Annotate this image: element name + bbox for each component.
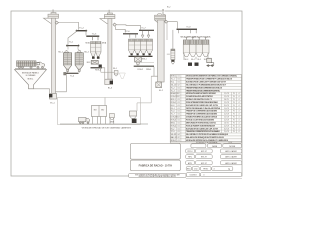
svg-text:TC-7: TC-7 [171, 114, 175, 116]
svg-text:4: 4 [239, 117, 240, 119]
svg-text:TC-6: TC-6 [125, 31, 129, 33]
frame border [11, 11, 242, 176]
svg-text:01: 01 [178, 99, 180, 101]
apr row [186, 161, 195, 165]
svg-text:4: 4 [239, 114, 240, 116]
svg-text:01: 01 [178, 82, 180, 84]
svg-text:4: 4 [239, 102, 240, 104]
svg-text:TC-3: TC-3 [171, 90, 175, 92]
silo SIL-2 [75, 50, 89, 71]
svg-text:MISTURADOR HORIZONTAL 1000 KG: MISTURADOR HORIZONTAL 1000 KG [186, 121, 216, 124]
elevator EL-3 boot [105, 79, 113, 89]
bagging stations [188, 63, 199, 66]
hopper MOE-1 (moega de recebimento) [15, 70, 47, 89]
svg-text:TRANSP. DE CORRENTE DA DOSAGEM: TRANSP. DE CORRENTE DA DOSAGEM [186, 113, 217, 116]
svg-text:FIL-1: FIL-1 [113, 68, 117, 70]
esc row [186, 167, 191, 171]
title block [129, 144, 242, 179]
svg-text:ROS-1: ROS-1 [95, 70, 101, 72]
svg-text:TC-1: TC-1 [69, 42, 73, 44]
svg-text:AVR LOADER: AVR LOADER [225, 156, 237, 159]
svg-text:4: 4 [239, 128, 240, 130]
elevator EL-1 boot [49, 94, 57, 105]
valve/discharge EL-1 [55, 21, 58, 24]
pallet truck [206, 58, 214, 66]
svg-text:4: 4 [239, 131, 240, 133]
conveyor TC-2 [76, 28, 87, 32]
svg-text:MOA: MOA [85, 42, 90, 45]
svg-text:FABRICA DE RACAO - 10 T/H: FABRICA DE RACAO - 10 T/H [139, 164, 173, 167]
wire: silos return to EL-1 boot [56, 74, 67, 92]
svg-text:ROSCA TRANSP. SOB MISTURADOR: ROSCA TRANSP. SOB MISTURADOR [186, 124, 216, 127]
rev row [186, 155, 195, 159]
svg-text:MOI-1: MOI-1 [171, 99, 176, 101]
svg-text:CODIGO: CODIGO [189, 175, 197, 177]
svg-text:* MOEGA DE EXPEDICAO DE ELE E: * MOEGA DE EXPEDICAO DE ELE E CARREGAM. … [81, 126, 132, 129]
svg-text:EL-2: EL-2 [171, 128, 175, 130]
conveyor under silos TC-4 [64, 71, 80, 77]
mixer MIS-1 [135, 57, 154, 64]
svg-text:TC-2: TC-2 [79, 28, 84, 30]
truck on receiving grate [15, 61, 46, 69]
svg-text:TRANSP. DE CORRENTE P/ PRODUTO: TRANSP. DE CORRENTE P/ PRODUTO ACABADO [186, 130, 220, 133]
svg-text:MIS-1: MIS-1 [171, 122, 176, 124]
wire: TC-2 to TC-3 [85, 31, 87, 35]
svg-text:SILO METALICO P/ ARMAZENAGEM D: SILO METALICO P/ ARMAZENAGEM DE MILHO 60… [186, 83, 227, 86]
conveyor TC-9 over product bins [173, 26, 197, 49]
svg-text:02: 02 [178, 96, 180, 98]
svg-text:02: 02 [178, 84, 180, 86]
expedition loading bin MOE-2 [130, 111, 137, 123]
truck (expedition) [79, 118, 90, 124]
proj row [186, 149, 195, 153]
svg-text:TC-6: TC-6 [171, 111, 175, 113]
wire: screw to EL-2 boot [151, 67, 158, 82]
valve/discharge EL-2 [165, 20, 168, 23]
svg-text:SIL-1/2: SIL-1/2 [171, 84, 177, 86]
svg-text:RACAO PELETIZADA: RACAO PELETIZADA [194, 35, 212, 38]
frame gap at EL-2 tick [162, 10, 164, 11]
screw conveyor ROS-1 under mill [91, 67, 105, 79]
project box (empty) [130, 144, 180, 160]
svg-text:AVR LOADER: AVR LOADER [225, 162, 237, 165]
detail box (expedition inset) [58, 98, 141, 125]
elevator EL-2 boot [156, 82, 163, 92]
svg-text:02: 02 [178, 137, 180, 139]
svg-text:0: 0 [203, 175, 204, 177]
svg-text:BALANCA DE ENSAQUE AUTOMATICA: BALANCA DE ENSAQUE AUTOMATICA 50 KG [186, 136, 224, 139]
conveyor TC-7 (right dosing feed) [139, 27, 154, 37]
svg-text:kg: kg [228, 169, 230, 171]
svg-text:DOS-3/6: DOS-3/6 [171, 117, 178, 119]
svg-text:1:50: 1:50 [194, 169, 198, 171]
svg-text:MOA: MOA [102, 42, 107, 45]
svg-text:SIL-2: SIL-2 [84, 51, 89, 53]
svg-text:PEN-1: PEN-1 [146, 69, 151, 71]
mill surge bins (2 cells) [85, 37, 106, 57]
svg-text:DATA: DATA [212, 145, 218, 148]
svg-text:SILO METALICO P/ PRODUTO ACABA: SILO METALICO P/ PRODUTO ACABADO E ENSAQ… [186, 133, 229, 136]
svg-text:EL-1: EL-1 [50, 103, 55, 105]
svg-text:01: 01 [178, 120, 180, 122]
svg-text:01: 01 [178, 131, 180, 133]
vent ticks above elevator heads [52, 9, 55, 12]
svg-text:4: 4 [239, 105, 240, 107]
svg-text:01: 01 [178, 76, 180, 78]
svg-text:4: 4 [239, 120, 240, 122]
svg-text:TRANSPORTADOR DE CORRENTE SOB: TRANSPORTADOR DE CORRENTE SOB OS SILOS [186, 86, 223, 89]
feeders under mill bins [92, 57, 100, 59]
svg-text:PESO: PESO [203, 169, 209, 171]
svg-text:ELEVADOR DE CANECAS CAP. 20 T/: ELEVADOR DE CANECAS CAP. 20 T/H [186, 104, 219, 107]
conveyor TC-3 [86, 33, 99, 37]
elevator EL-1 [44, 13, 59, 95]
svg-text:ROSCA COLETORA DA DOSAGEM: ROSCA COLETORA DA DOSAGEM [186, 119, 214, 122]
svg-text:01: 01 [178, 87, 180, 89]
product bins (4) [183, 37, 209, 60]
wire: EL-1 discharge to TC-2 [59, 23, 79, 30]
disclaimer strip [129, 173, 186, 177]
svg-text:TC-4: TC-4 [70, 76, 74, 78]
svg-text:ROSCA TRANSPORTADORA SOB MOINH: ROSCA TRANSPORTADORA SOB MOINHO [186, 101, 218, 104]
svg-text:MOEGA DE EXPEDICAO A GRANEL P/: MOEGA DE EXPEDICAO A GRANEL P/ CAMINHOES [186, 139, 229, 142]
cyclone/airlock next to EL-3 [101, 67, 118, 76]
svg-text:E CEREAIS: E CEREAIS [26, 74, 36, 77]
svg-text:TRANSP. DE CORRENTE DA DOSAGEM: TRANSP. DE CORRENTE DA DOSAGEM [186, 110, 217, 113]
svg-text:TC-9: TC-9 [186, 26, 190, 28]
wire: drop to expedition bin [137, 76, 151, 111]
svg-text:04: 04 [178, 134, 180, 136]
screw under mixer ROS-2 [134, 64, 154, 71]
elevator EL-3 [100, 13, 115, 79]
dosing bins DOS 1-4 [129, 39, 153, 55]
hammermill MOI-1 [87, 61, 102, 68]
svg-text:4: 4 [239, 108, 240, 110]
elevator EL-2 (main) [155, 9, 166, 82]
svg-text:EL-2: EL-2 [159, 90, 163, 92]
svg-text:EL-1: EL-1 [171, 82, 175, 84]
svg-text:MOI: MOI [87, 62, 91, 64]
svg-text:MIS-1: MIS-1 [142, 59, 147, 61]
svg-text:TC-1: TC-1 [171, 79, 175, 81]
svg-text:4: 4 [239, 93, 240, 95]
svg-text:ROS-2: ROS-2 [138, 69, 144, 71]
data/nome header row [191, 144, 206, 148]
svg-text:TC-9: TC-9 [171, 131, 175, 133]
silo SIL-1 [58, 50, 71, 71]
svg-text:TRANSPORTADOR DE CORRENTE P/ C: TRANSPORTADOR DE CORRENTE P/ CARGA DOS S… [186, 78, 233, 81]
wire: hopper to EL-1 boot [34, 89, 50, 94]
small elevated bin [110, 114, 115, 124]
svg-text:EST-97: EST-97 [201, 157, 207, 159]
svg-text:SIL-4: SIL-4 [191, 59, 195, 61]
svg-text:ELEVADOR DE CANECAS CAP. 20 T/: ELEVADOR DE CANECAS CAP. 20 T/H [186, 127, 219, 130]
svg-text:BAL-1/2: BAL-1/2 [171, 136, 177, 139]
svg-text:TC-2: TC-2 [171, 87, 175, 89]
svg-text:DOS-1/2: DOS-1/2 [171, 96, 178, 98]
expedition storage bins (2) [92, 98, 107, 124]
desenho row [186, 173, 199, 177]
svg-text:MOEGA PULMAO ACIMA DO MOINHO: MOEGA PULMAO ACIMA DO MOINHO [186, 92, 216, 95]
svg-text:4: 4 [239, 122, 240, 124]
chute to silo conveyor [68, 31, 77, 44]
wire: EL-3 discharge to dosing conveyors [116, 25, 140, 30]
svg-text:01: 01 [178, 125, 180, 127]
svg-text:ROS-4: ROS-4 [171, 125, 176, 127]
conveyor over silos [66, 45, 81, 51]
svg-text:ROS-3: ROS-3 [171, 120, 176, 122]
svg-text:DOSADOR ALVEOLAR ROTATIVO: DOSADOR ALVEOLAR ROTATIVO [186, 95, 213, 98]
svg-text:SIL-5: SIL-5 [197, 59, 201, 61]
svg-text:01: 01 [178, 111, 180, 113]
svg-text:04: 04 [178, 117, 180, 119]
svg-text:4: 4 [239, 111, 240, 113]
svg-text:FILTRO DE MANGAS C/ VALVULA RO: FILTRO DE MANGAS C/ VALVULA ROTATIVA [186, 107, 221, 110]
svg-text:4: 4 [214, 169, 215, 171]
svg-text:ELEVADOR DE CANECAS P/ CEREAIS: ELEVADOR DE CANECAS P/ CEREAIS CAP. 20 T… [186, 81, 227, 84]
svg-text:SIL-3: SIL-3 [185, 59, 189, 61]
svg-text:APR.: APR. [188, 162, 193, 165]
wire: EL-2 to product conveyor [168, 22, 177, 29]
svg-text:01: 01 [178, 79, 180, 81]
svg-text:MOE-1: MOE-1 [28, 78, 34, 80]
svg-text:MOEGA DE RECEBIMENTO DE FARELO: MOEGA DE RECEBIMENTO DE FARELOS E CEREAI… [186, 75, 238, 78]
svg-text:MOINHO DE MARTELOS 50 CV: MOINHO DE MARTELOS 50 CV [186, 98, 213, 101]
bottom strip line [186, 178, 242, 180]
svg-text:TRANSPORTADOR DE CORRENTE REVE: TRANSPORTADOR DE CORRENTE REVERSIVEL [186, 89, 221, 92]
svg-text:TC-7: TC-7 [141, 27, 145, 29]
equipment list table [170, 75, 241, 144]
svg-text:01: 01 [178, 114, 180, 116]
svg-text:AVR LOADER: AVR LOADER [225, 150, 237, 153]
svg-text:NOME: NOME [229, 146, 236, 148]
svg-text:ROS-1: ROS-1 [171, 102, 176, 104]
svg-text:02: 02 [178, 93, 180, 95]
svg-text:4: 4 [239, 125, 240, 127]
svg-text:4: 4 [239, 99, 240, 101]
svg-text:01: 01 [178, 90, 180, 92]
collecting screw under dosing [129, 56, 153, 57]
svg-text:EL-2: EL-2 [167, 6, 170, 8]
title box [130, 160, 180, 171]
svg-text:TC-3: TC-3 [92, 33, 97, 35]
svg-text:DOSADOR SOBRE CELULAS DE CARGA: DOSADOR SOBRE CELULAS DE CARGA [186, 116, 218, 119]
svg-text:SIL-3/6: SIL-3/6 [171, 134, 177, 136]
svg-text:01: 01 [178, 105, 180, 107]
faint cyclone funnel [119, 73, 125, 79]
svg-text:PROJ.: PROJ. [187, 151, 193, 153]
svg-text:EST-97: EST-97 [201, 151, 207, 153]
svg-text:MOE-1: MOE-1 [171, 76, 177, 78]
svg-text:01: 01 [178, 128, 180, 130]
ground line inside detail [60, 123, 148, 125]
svg-text:4: 4 [239, 96, 240, 98]
svg-text:EL-3: EL-3 [171, 105, 175, 107]
svg-text:01: 01 [178, 122, 180, 124]
svg-text:REV.: REV. [188, 157, 193, 159]
conveyor TC-6 (left dosing feed) [123, 31, 138, 38]
svg-text:01: 01 [178, 102, 180, 104]
svg-text:01: 01 [178, 108, 180, 110]
svg-text:FIL-1: FIL-1 [171, 108, 175, 110]
valve/discharge EL-3 [113, 23, 116, 26]
svg-text:MOE: MOE [110, 121, 115, 123]
svg-text:SIL-1: SIL-1 [58, 51, 63, 53]
bagging bin (left small) [167, 49, 175, 64]
svg-text:EST-97: EST-97 [201, 163, 207, 165]
svg-text:EL-3: EL-3 [108, 88, 113, 90]
